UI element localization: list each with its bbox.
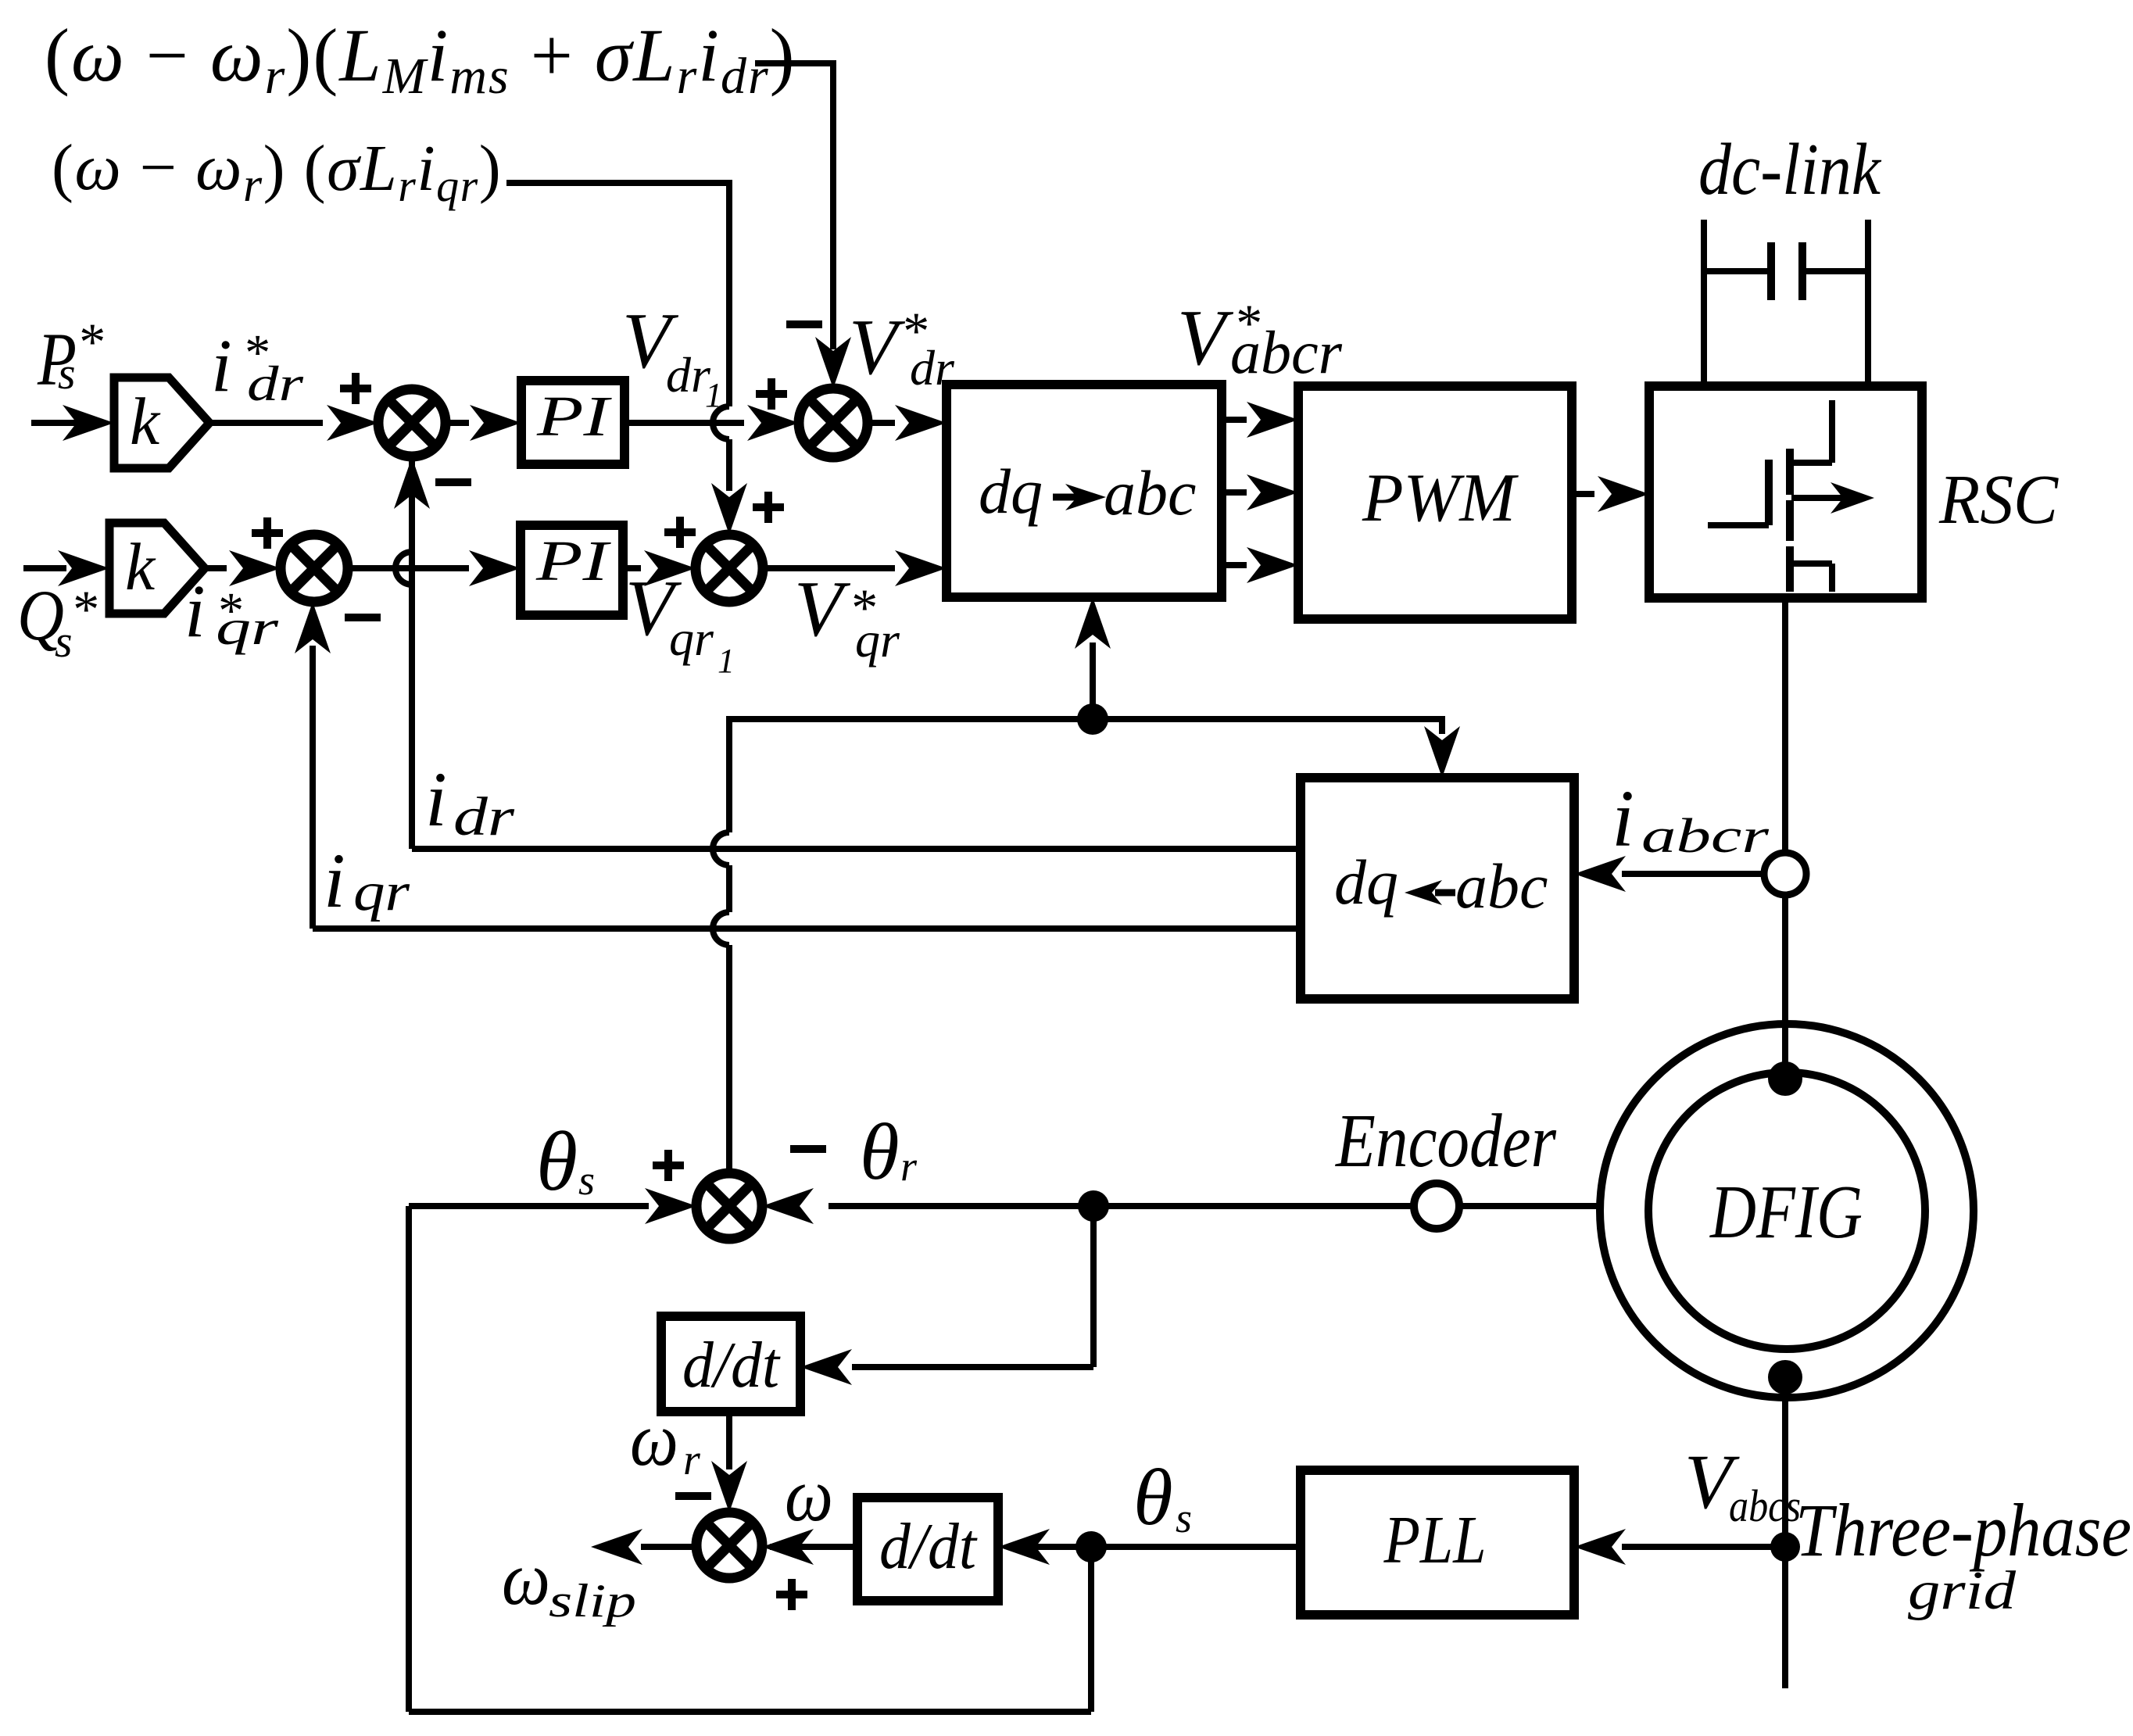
- svg-text:dq: dq: [1334, 847, 1398, 918]
- svg-text:s: s: [55, 616, 73, 667]
- svg-text:s: s: [578, 1157, 595, 1204]
- svg-text:i: i: [1612, 774, 1634, 864]
- svg-text:slip: slip: [549, 1575, 636, 1627]
- svg-text:k: k: [125, 529, 156, 604]
- svg-text:dc-link: dc-link: [1698, 129, 1882, 210]
- svg-text:Encoder: Encoder: [1334, 1099, 1556, 1183]
- svg-text:*: *: [77, 312, 103, 371]
- svg-text:s: s: [1176, 1494, 1192, 1541]
- svg-text:PWM: PWM: [1362, 460, 1519, 536]
- svg-text:ω: ω: [630, 1398, 678, 1482]
- svg-text:1: 1: [718, 642, 735, 680]
- svg-text:V: V: [1177, 294, 1234, 382]
- svg-text:dq: dq: [979, 456, 1043, 527]
- svg-text:i: i: [324, 837, 345, 924]
- svg-text:i: i: [211, 324, 232, 407]
- svg-text:s: s: [58, 348, 76, 399]
- svg-text:abcr: abcr: [1230, 318, 1343, 386]
- svg-text:qr: qr: [855, 612, 900, 668]
- svg-text:qr: qr: [216, 600, 280, 655]
- svg-text:abc: abc: [1104, 457, 1196, 528]
- svg-text:V: V: [794, 565, 851, 653]
- svg-text:θ: θ: [860, 1108, 900, 1197]
- svg-text:i: i: [184, 569, 206, 653]
- svg-text:θ: θ: [1133, 1453, 1173, 1542]
- svg-text:DFIG: DFIG: [1709, 1170, 1863, 1255]
- svg-text:r: r: [683, 1436, 700, 1484]
- svg-text:V: V: [849, 303, 906, 392]
- svg-text:*: *: [70, 579, 97, 639]
- svg-text:Three-phase: Three-phase: [1795, 1488, 2131, 1572]
- svg-text:RSC: RSC: [1938, 461, 2059, 539]
- svg-text:ω: ω: [502, 1537, 550, 1621]
- svg-text:dr: dr: [453, 787, 515, 847]
- svg-text:abcr: abcr: [1641, 810, 1770, 863]
- svg-text:grid: grid: [1908, 1561, 2017, 1621]
- svg-text:PI: PI: [535, 529, 612, 592]
- svg-text:d/dt: d/dt: [682, 1329, 782, 1401]
- svg-text:k: k: [130, 384, 161, 459]
- svg-text:r: r: [900, 1143, 918, 1190]
- svg-text:d/dt: d/dt: [879, 1510, 979, 1583]
- svg-text:PLL: PLL: [1383, 1502, 1487, 1577]
- svg-text:(ω − ωr) (σLriqr): (ω − ωr) (σLriqr): [52, 131, 502, 212]
- svg-text:θ: θ: [536, 1115, 578, 1208]
- svg-text:dr: dr: [247, 356, 304, 411]
- svg-text:ω: ω: [785, 1453, 833, 1537]
- svg-text:i: i: [425, 756, 447, 843]
- svg-text:PI: PI: [536, 385, 613, 448]
- svg-text:qr: qr: [353, 862, 410, 922]
- svg-text:abcs: abcs: [1729, 1480, 1801, 1531]
- svg-text:1: 1: [705, 376, 722, 414]
- svg-text:qr: qr: [669, 610, 714, 666]
- svg-text:abc: abc: [1455, 850, 1548, 922]
